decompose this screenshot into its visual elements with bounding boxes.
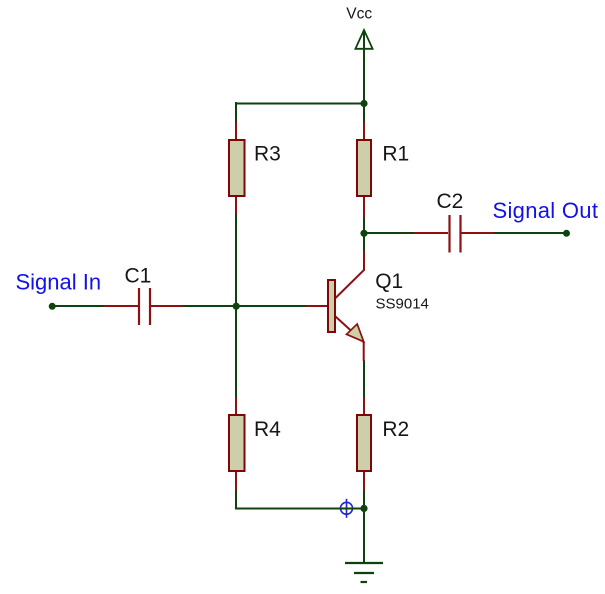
svg-text:R4: R4 [254,418,281,441]
svg-text:Vcc: Vcc [346,6,372,23]
svg-text:R1: R1 [382,143,409,166]
svg-text:Signal In: Signal In [16,269,102,294]
svg-text:R2: R2 [382,418,409,441]
svg-text:R3: R3 [254,143,281,166]
svg-text:Signal Out: Signal Out [493,198,599,223]
svg-text:C2: C2 [437,190,464,213]
svg-text:C1: C1 [125,265,152,288]
svg-text:Q1: Q1 [375,270,403,293]
svg-text:SS9014: SS9014 [376,296,429,313]
